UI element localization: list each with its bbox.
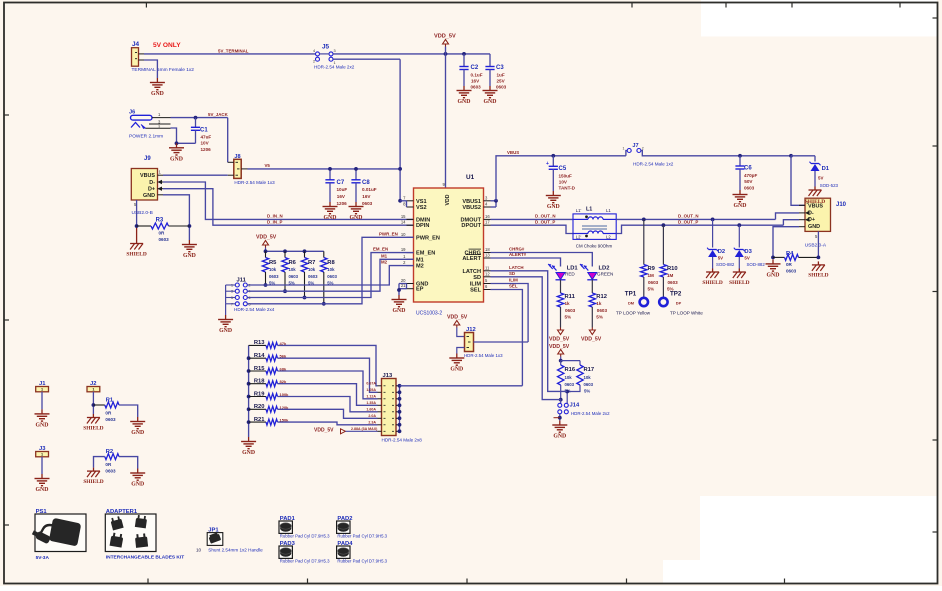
svg-text:2: 2 xyxy=(313,60,315,64)
svg-text:10k: 10k xyxy=(565,375,573,380)
svg-text:1206: 1206 xyxy=(337,201,348,206)
svg-text:EM_EN: EM_EN xyxy=(373,247,388,252)
svg-text:0603: 0603 xyxy=(786,269,797,274)
wire R18 to J13 xyxy=(278,384,378,406)
svg-text:GND: GND xyxy=(36,487,49,493)
wire to D2 xyxy=(711,218,715,222)
wire D_OUT_P from DPOUT xyxy=(491,225,574,233)
svg-text:C1: C1 xyxy=(200,128,208,134)
svg-text:5V ONLY: 5V ONLY xyxy=(153,42,181,49)
svg-text:10: 10 xyxy=(401,232,406,237)
resistor R6 xyxy=(284,251,286,257)
svg-text:VDD: VDD xyxy=(445,194,451,205)
svg-text:J14: J14 xyxy=(570,403,580,409)
svg-text:1206: 1206 xyxy=(201,147,212,152)
svg-text:SOD-882: SOD-882 xyxy=(716,262,735,267)
U1 pin PWR_EN xyxy=(407,236,414,238)
wire SEL net xyxy=(491,290,523,386)
svg-text:VDD_5V: VDD_5V xyxy=(447,315,468,321)
svg-text:C2: C2 xyxy=(471,65,479,71)
svg-text:0603: 0603 xyxy=(289,274,299,279)
wire J10 GND to R4 xyxy=(773,227,799,258)
ground for R1 xyxy=(137,417,139,422)
svg-text:Rubber Pad Cyl D7.9H5.3: Rubber Pad Cyl D7.9H5.3 xyxy=(280,534,330,539)
ground for J6 xyxy=(176,143,178,148)
ground for C6 xyxy=(739,190,741,195)
svg-text:12: 12 xyxy=(485,271,490,276)
svg-text:SHIELD: SHIELD xyxy=(83,425,103,431)
svg-text:0603: 0603 xyxy=(496,85,507,90)
svg-text:SEL: SEL xyxy=(509,284,518,289)
svg-text:Rubber Pad Cyl D7.9H5.3: Rubber Pad Cyl D7.9H5.3 xyxy=(280,559,330,564)
wire J12 pin2 to ILIM xyxy=(474,341,529,343)
svg-text:0603: 0603 xyxy=(159,237,170,242)
wire R14 to J13 xyxy=(278,358,378,392)
resistor R12 xyxy=(589,293,595,307)
wire D_OUT_P after choke xyxy=(616,225,783,233)
svg-text:PWR_EN: PWR_EN xyxy=(379,231,398,236)
svg-text:18: 18 xyxy=(485,247,490,252)
svg-text:3: 3 xyxy=(334,49,336,53)
svg-text:GND: GND xyxy=(458,99,471,105)
svg-text:10uF: 10uF xyxy=(337,187,348,192)
wire D_OUT_N after choke xyxy=(616,218,775,220)
svg-text:1uF: 1uF xyxy=(497,72,505,77)
svg-text:HDR-2.54 Male 2x2: HDR-2.54 Male 2x2 xyxy=(571,411,610,416)
U1 pin M1 xyxy=(407,258,414,260)
svg-text:0603: 0603 xyxy=(105,469,116,474)
svg-text:GND: GND xyxy=(808,224,820,230)
wire M2 row xyxy=(247,266,413,285)
wire J11 left pins to ground xyxy=(225,285,227,304)
diode D3 zener xyxy=(735,249,743,251)
svg-text:J10: J10 xyxy=(836,202,847,208)
resistor R5 xyxy=(265,251,267,257)
svg-text:1: 1 xyxy=(623,147,625,151)
wire jack ground return xyxy=(171,128,196,143)
border zone ticks xyxy=(145,3,147,8)
U1 pin SD xyxy=(484,276,491,278)
svg-text:10k: 10k xyxy=(327,267,335,272)
svg-text:R20: R20 xyxy=(254,404,265,410)
wire M1 row xyxy=(247,259,413,291)
power flag VDD_5V below R12 xyxy=(589,330,595,335)
U1 pin EM_EN xyxy=(407,252,414,254)
svg-text:0R: 0R xyxy=(159,231,166,236)
svg-text:10k: 10k xyxy=(289,267,297,272)
svg-text:D_IN_P: D_IN_P xyxy=(267,219,282,224)
svg-text:GND: GND xyxy=(36,422,49,428)
wire VDD_5V top rail xyxy=(333,53,490,55)
svg-text:14: 14 xyxy=(401,220,406,225)
svg-text:D+: D+ xyxy=(148,187,155,193)
svg-text:0603: 0603 xyxy=(668,280,679,285)
svg-text:D_OUT_P: D_OUT_P xyxy=(678,219,698,224)
svg-text:VDD_5V: VDD_5V xyxy=(314,428,334,434)
svg-text:0R: 0R xyxy=(105,462,112,467)
svg-text:R14: R14 xyxy=(254,353,265,359)
svg-text:10V: 10V xyxy=(201,141,210,146)
U1 pin VS1 xyxy=(407,200,414,202)
svg-text:SHIELD: SHIELD xyxy=(729,280,749,286)
svg-text:GND: GND xyxy=(143,193,155,199)
wire CHRG to LD2 xyxy=(491,253,593,267)
wire R20 to J13 xyxy=(278,409,378,418)
svg-text:GND: GND xyxy=(131,430,144,436)
svg-text:GND: GND xyxy=(393,308,406,314)
svg-text:VDD_5V: VDD_5V xyxy=(549,344,570,350)
wire J13 right bus xyxy=(399,386,401,432)
svg-text:M1: M1 xyxy=(381,253,388,258)
svg-text:0603: 0603 xyxy=(565,308,576,313)
svg-text:470pF: 470pF xyxy=(744,173,757,178)
U1 pin DMOUT xyxy=(484,218,491,220)
svg-text:M2: M2 xyxy=(381,260,388,265)
svg-text:1.05A: 1.05A xyxy=(366,388,376,392)
svg-text:EP: EP xyxy=(416,287,424,293)
svg-text:5V-3A: 5V-3A xyxy=(36,555,50,561)
svg-text:R18: R18 xyxy=(254,379,265,385)
svg-text:L1: L1 xyxy=(586,207,592,213)
svg-text:+: + xyxy=(546,161,549,167)
resistor R21 xyxy=(247,420,251,424)
svg-text:R12: R12 xyxy=(596,294,607,300)
svg-text:LD1: LD1 xyxy=(567,266,579,272)
svg-text:VBUS1: VBUS1 xyxy=(462,199,481,205)
resistor R14 xyxy=(247,356,251,360)
svg-text:GND: GND xyxy=(131,482,144,488)
wire D- to DMIN xyxy=(163,182,414,219)
svg-text:1: 1 xyxy=(41,453,43,457)
U1 pin ALERT xyxy=(484,257,491,259)
U1 pin GND xyxy=(407,283,414,285)
svg-text:D3: D3 xyxy=(744,249,752,255)
svg-text:VS2: VS2 xyxy=(416,205,427,211)
svg-text:17: 17 xyxy=(485,220,490,225)
svg-text:10V: 10V xyxy=(559,180,568,185)
U1 pin EP xyxy=(407,288,414,290)
shield symbol for D1 xyxy=(814,187,816,191)
svg-text:VDD_5V: VDD_5V xyxy=(256,235,277,241)
svg-text:16V: 16V xyxy=(337,194,346,199)
svg-text:0R: 0R xyxy=(786,262,793,267)
svg-text:TANT-D: TANT-D xyxy=(559,186,576,191)
svg-text:SHIELD: SHIELD xyxy=(805,199,825,205)
svg-text:HDR-2.54 Male 1x3: HDR-2.54 Male 1x3 xyxy=(234,180,275,185)
svg-text:GND: GND xyxy=(450,367,463,373)
svg-text:47uF: 47uF xyxy=(201,135,212,140)
svg-text:5%: 5% xyxy=(565,315,572,320)
svg-text:M2: M2 xyxy=(416,264,424,270)
svg-text:5%: 5% xyxy=(648,287,655,292)
ground for J4 xyxy=(156,78,158,83)
svg-text:D_OUT_N: D_OUT_N xyxy=(535,214,556,219)
svg-text:R21: R21 xyxy=(254,417,265,423)
svg-text:19: 19 xyxy=(401,247,406,252)
U1 pin CHRG xyxy=(484,252,491,254)
wire R21 to J13 xyxy=(278,422,378,425)
svg-text:0.67A: 0.67A xyxy=(366,382,376,386)
svg-text:RED: RED xyxy=(565,272,575,277)
shield symbol for D3 xyxy=(738,269,740,273)
svg-text:2.88A (3A MAX): 2.88A (3A MAX) xyxy=(351,427,378,431)
wire PWR_EN row xyxy=(247,237,413,303)
ground for C5 xyxy=(552,191,554,196)
diode D2 zener xyxy=(709,249,717,251)
svg-text:0603: 0603 xyxy=(471,85,482,90)
svg-text:CHRG#: CHRG# xyxy=(509,247,525,252)
svg-text:15: 15 xyxy=(401,214,406,219)
capacitor C8 xyxy=(355,169,357,180)
svg-text:C5: C5 xyxy=(559,166,567,172)
svg-text:1.60A: 1.60A xyxy=(366,408,376,412)
white region top-right xyxy=(701,0,937,37)
svg-text:PWR_EN: PWR_EN xyxy=(416,235,440,241)
svg-text:HDR-2.54 Male 1x2: HDR-2.54 Male 1x2 xyxy=(633,161,674,166)
U1 pin DPOUT xyxy=(484,224,491,226)
svg-text:Shunt 2.54mm 1x2 Handle: Shunt 2.54mm 1x2 Handle xyxy=(208,548,263,553)
svg-text:ILIM: ILIM xyxy=(509,278,518,283)
svg-text:0603: 0603 xyxy=(105,417,116,422)
resistor R10 xyxy=(660,265,666,278)
svg-text:Rubber Pad Cyl D7.9H5.3: Rubber Pad Cyl D7.9H5.3 xyxy=(337,559,387,564)
svg-text:R2: R2 xyxy=(106,449,113,455)
svg-text:16V: 16V xyxy=(362,194,371,199)
svg-text:GND: GND xyxy=(183,253,196,259)
svg-text:VS1: VS1 xyxy=(416,199,427,205)
svg-text:TP LOOP Yellow: TP LOOP Yellow xyxy=(616,311,651,316)
wire ladder common bus xyxy=(248,345,250,437)
svg-text:10k: 10k xyxy=(584,375,592,380)
svg-text:CM Choke 90Ohm: CM Choke 90Ohm xyxy=(576,243,613,248)
svg-text:TP LOOP White: TP LOOP White xyxy=(670,311,703,316)
svg-text:GND: GND xyxy=(553,434,566,440)
resistor R7 xyxy=(304,251,306,257)
svg-text:0603: 0603 xyxy=(565,382,575,387)
svg-text:10: 10 xyxy=(196,548,202,553)
svg-text:LATCH: LATCH xyxy=(509,265,524,270)
svg-text:HDR-2.54 Male 1x3: HDR-2.54 Male 1x3 xyxy=(464,353,503,358)
ground for J14 xyxy=(559,421,561,426)
svg-text:J6: J6 xyxy=(129,110,135,116)
svg-text:D-: D- xyxy=(149,180,155,186)
diode D1 zener xyxy=(811,163,819,165)
shield symbol for J9 xyxy=(136,240,138,244)
wire J9 VBUS to J8 pin3 xyxy=(163,174,228,176)
svg-text:J9: J9 xyxy=(144,156,151,162)
wire U1 GND EP tie xyxy=(406,284,408,289)
svg-text:16: 16 xyxy=(485,214,490,219)
svg-text:5V_JACK: 5V_JACK xyxy=(208,112,229,117)
svg-text:VDD_5V: VDD_5V xyxy=(434,34,456,40)
svg-text:C3: C3 xyxy=(496,65,504,71)
capacitor C3 xyxy=(489,54,491,67)
svg-text:Rubber Pad Cyl D7.9H5.3: Rubber Pad Cyl D7.9H5.3 xyxy=(337,534,387,539)
ground for C7 xyxy=(329,202,331,207)
svg-text:11: 11 xyxy=(485,265,490,270)
wire D+ to DPIN xyxy=(163,189,414,226)
U1 pin M2 xyxy=(407,265,414,267)
svg-text:C7: C7 xyxy=(337,180,345,186)
U1 pin VS2 xyxy=(407,206,414,208)
svg-text:R6: R6 xyxy=(289,260,297,266)
svg-text:TERMINAL 5mm Female 1x2: TERMINAL 5mm Female 1x2 xyxy=(132,67,195,73)
ground for J3 xyxy=(41,474,43,479)
svg-text:HDR-2.54 Male 2x8: HDR-2.54 Male 2x8 xyxy=(382,438,423,443)
svg-text:GREEN: GREEN xyxy=(597,272,613,277)
wire ILIM net xyxy=(491,284,529,343)
ground for R4 xyxy=(772,259,774,264)
ground for U1 EP xyxy=(398,295,400,300)
wire SD net xyxy=(491,277,561,400)
svg-text:TP2: TP2 xyxy=(670,291,682,298)
wire J9 shield pin xyxy=(136,200,138,226)
svg-text:SD: SD xyxy=(509,271,515,276)
ground for C2 xyxy=(463,86,465,91)
svg-text:5V_TERMINAL: 5V_TERMINAL xyxy=(218,48,249,53)
svg-text:SHIELD: SHIELD xyxy=(702,280,722,286)
svg-text:GND: GND xyxy=(151,91,164,97)
svg-text:0603: 0603 xyxy=(269,274,279,279)
svg-text:1k: 1k xyxy=(596,301,602,306)
resistor R13 xyxy=(249,344,266,346)
wire VBUS to D1 and J10 xyxy=(789,154,793,158)
wire VBUS to J10 pin1 xyxy=(791,156,805,206)
svg-text:0603: 0603 xyxy=(597,308,608,313)
svg-text:0603: 0603 xyxy=(744,185,755,190)
svg-text:R7: R7 xyxy=(308,260,315,266)
svg-text:R19: R19 xyxy=(254,391,265,397)
svg-text:5%: 5% xyxy=(596,315,603,320)
svg-text:0603: 0603 xyxy=(584,382,594,387)
svg-text:0.1uF: 0.1uF xyxy=(471,72,483,77)
wire VS tie xyxy=(400,200,406,202)
svg-text:SHIELD: SHIELD xyxy=(83,479,103,485)
shield symbol for D2 xyxy=(712,269,714,273)
svg-text:1k: 1k xyxy=(565,301,571,306)
svg-text:R3: R3 xyxy=(156,218,164,224)
shield symbol for J10 xyxy=(817,261,819,265)
shield symbol for R2 xyxy=(93,468,95,472)
svg-text:D_OUT_P: D_OUT_P xyxy=(535,219,555,224)
svg-text:0603: 0603 xyxy=(308,274,318,279)
svg-text:GND: GND xyxy=(484,99,497,105)
resistor R20 xyxy=(247,407,251,411)
svg-text:1.12A: 1.12A xyxy=(366,395,376,399)
svg-text:POWER 2.1mm: POWER 2.1mm xyxy=(129,134,163,140)
svg-text:R15: R15 xyxy=(254,366,265,372)
svg-text:0603: 0603 xyxy=(648,280,659,285)
svg-text:L1': L1' xyxy=(576,208,582,213)
wire J13 to SEL xyxy=(400,385,523,387)
svg-text:SHIELD: SHIELD xyxy=(808,273,828,279)
resistor R15 xyxy=(247,369,251,373)
wire to R9 xyxy=(642,218,646,222)
resistor R8 xyxy=(323,251,325,257)
resistor R19 xyxy=(247,395,251,399)
wire ALERT to LD1 xyxy=(491,258,561,267)
svg-text:2.3A: 2.3A xyxy=(368,421,376,425)
svg-text:VBUS: VBUS xyxy=(140,173,155,179)
svg-text:L1: L1 xyxy=(606,208,611,213)
svg-text:J4: J4 xyxy=(132,41,140,48)
svg-text:V5: V5 xyxy=(265,163,271,168)
svg-text:SEL: SEL xyxy=(470,288,481,294)
U1 pin DMIN xyxy=(407,218,414,220)
resistor R9 xyxy=(641,265,647,278)
svg-text:4: 4 xyxy=(313,49,315,53)
wire J14 pin3 to ground xyxy=(559,414,561,421)
resistor R18 xyxy=(247,382,251,386)
svg-text:GND: GND xyxy=(242,450,255,456)
wire D_OUT_N from DMOUT xyxy=(491,218,574,220)
wire R15 to J13 xyxy=(278,371,378,399)
svg-text:R11: R11 xyxy=(565,294,576,300)
wire to R10 xyxy=(662,223,666,227)
resistor R17 xyxy=(579,361,581,365)
wire VDD down to U1 pin9 xyxy=(445,47,447,189)
svg-text:R9: R9 xyxy=(648,266,656,272)
ground for ladder xyxy=(248,437,250,442)
svg-text:D_IN_N: D_IN_N xyxy=(267,214,283,219)
svg-text:L2: L2 xyxy=(606,235,611,240)
svg-text:2.0A: 2.0A xyxy=(368,414,376,418)
svg-text:GND: GND xyxy=(350,215,363,221)
connector J14 xyxy=(558,403,562,407)
svg-text:0.01uF: 0.01uF xyxy=(362,187,377,192)
svg-text:L2': L2' xyxy=(576,235,582,240)
capacitor C7 xyxy=(329,169,331,180)
svg-text:DP: DP xyxy=(676,300,682,305)
wire J4 pin2 to ground xyxy=(144,60,157,78)
ground for J12 xyxy=(456,354,458,359)
svg-text:1: 1 xyxy=(92,388,94,392)
svg-text:0603: 0603 xyxy=(327,274,337,279)
svg-text:GND: GND xyxy=(219,328,232,334)
wire LATCH net xyxy=(491,271,568,392)
svg-text:VBUS2: VBUS2 xyxy=(462,205,481,211)
U1 pin LATCH xyxy=(484,270,491,272)
svg-text:1M: 1M xyxy=(667,273,674,278)
svg-text:SHIELD: SHIELD xyxy=(126,251,146,257)
ground for J11 xyxy=(225,315,227,320)
U1 pin VBUS2 xyxy=(484,206,491,208)
U1 pin ILIM xyxy=(484,283,491,285)
svg-text:GND: GND xyxy=(324,215,337,221)
wire J5 pin1 to V5 vertical xyxy=(333,58,400,60)
U1 pin VBUS1 xyxy=(484,200,491,202)
svg-text:1: 1 xyxy=(41,388,43,392)
svg-text:5V: 5V xyxy=(744,256,749,261)
svg-text:EM_EN: EM_EN xyxy=(416,251,435,257)
ground for J9 xyxy=(188,240,190,245)
svg-text:DM: DM xyxy=(628,300,634,305)
wire R13 to J13 xyxy=(278,345,378,385)
resistor R16 xyxy=(560,361,562,365)
svg-text:25V: 25V xyxy=(497,79,506,84)
U1 pin DPIN xyxy=(407,224,414,226)
svg-text:10k: 10k xyxy=(308,267,316,272)
wire J9 GND xyxy=(163,195,189,240)
wire J12 pin3 to ground xyxy=(457,348,465,354)
svg-text:USB2.0-B: USB2.0-B xyxy=(132,210,153,216)
svg-text:VDD_5V: VDD_5V xyxy=(581,337,602,343)
capacitor C6 xyxy=(738,154,742,158)
svg-text:DPOUT: DPOUT xyxy=(461,223,481,229)
wire V5 vertical to VS pins xyxy=(399,59,401,201)
white region bottom-right xyxy=(700,496,937,583)
resistor R11 xyxy=(557,293,563,307)
